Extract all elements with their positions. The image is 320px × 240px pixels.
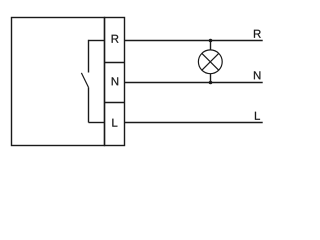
wire: lamp top lead — [210, 41, 212, 50]
net label N — [254, 71, 260, 79]
switch S1 blade — [81, 73, 88, 88]
wire N — [125, 82, 263, 84]
lamp E1 — [198, 50, 222, 74]
wire: switch bottom connection to L terminal — [89, 122, 105, 124]
wire: lamp bottom lead — [210, 74, 212, 83]
wire: switch bottom lead — [88, 87, 90, 122]
node: lamp to R wire junction — [209, 39, 213, 43]
net label R — [254, 30, 261, 38]
terminal divider R/N — [105, 62, 125, 64]
terminal divider N/L — [105, 102, 125, 104]
terminal label R — [112, 35, 119, 43]
wire R — [125, 40, 263, 42]
wire L — [125, 122, 263, 124]
terminal label L — [112, 119, 117, 127]
terminal label N — [112, 77, 118, 85]
terminal block — [105, 18, 125, 146]
wire: switch top connection to R terminal — [89, 40, 105, 42]
switch enclosure box — [12, 18, 105, 146]
node: lamp to N wire junction — [209, 81, 213, 85]
wire: switch top lead — [88, 40, 90, 73]
net label L — [255, 112, 260, 120]
